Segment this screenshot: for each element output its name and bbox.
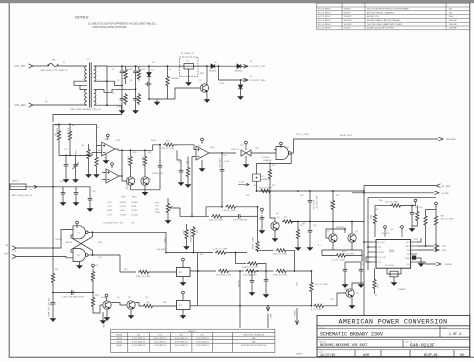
wire IC3 power stub [182,297,184,301]
wire C39 top [251,271,253,278]
bottom connector arrow down [266,306,270,328]
ground under C42 [307,245,312,250]
junction charge node [239,270,241,272]
wire C13 upper [159,145,161,163]
ground under Q5 [104,315,109,320]
svg-text:DEL 2ND LINE CLAMP/CMP COVER: DEL 2ND LINE CLAMP/CMP COVER [367,23,402,26]
svg-text:4.75K 1/8W 1%: 4.75K 1/8W 1% [132,342,145,344]
svg-text:VDD: VDD [414,239,419,241]
svg-text:COMSIG: COMSIG [444,264,453,266]
transistor Q2 [126,177,134,185]
svg-text:BCUP-96: BCUP-96 [424,353,437,357]
svg-text:47K_5%_1/8W: 47K_5%_1/8W [296,134,309,136]
svg-text:100K_5%_1/8W: 100K_5%_1/8W [209,220,223,222]
junction U2B out at drop [121,175,123,177]
svg-text:R3,R4,R11,R13,R20,R26,C40: R3,R4,R11,R13,R20,R26,C40 [241,345,266,347]
wire charge node down [239,271,241,328]
svg-text:IC4B: IC4B [210,147,215,149]
wire R11 bottom [69,142,71,156]
svg-text:0.1UF: 0.1UF [117,106,123,108]
svg-text:R54: R54 [163,302,166,304]
junction drive at arrow [267,305,269,307]
wire G1 power stub [76,227,78,228]
svg-text:Q6: Q6 [145,297,148,299]
svg-text:IC2: IC2 [77,255,80,257]
capacitor C42 [308,228,313,235]
svg-text:470K_5%_1/8W: 470K_5%_1/8W [273,275,287,277]
svg-text:BREAK_AV: BREAK_AV [262,178,272,181]
wire C40 top [265,271,267,277]
wire Q9 collector up [352,283,364,289]
svg-text:J4: J4 [250,61,252,63]
junction R16 mid rail [88,155,90,157]
wire IC6 comsig [417,262,436,264]
svg-text:SCHEMATIC BKBABY 230V: SCHEMATIC BKBABY 230V [320,332,383,338]
wire emitter bus left down [322,250,335,256]
ground under crystal [391,280,396,285]
junction pinB bus [367,246,369,248]
resistor R74 horizontal [335,254,347,257]
net list labels mid-left [103,196,139,225]
wire column B res join [138,66,140,68]
wire Q6 emitter [130,309,132,313]
svg-text:475K: 475K [116,140,121,142]
wire U1B -in [192,156,196,158]
connector TRIGGER arrow [439,137,444,141]
wire D5 bottom [240,89,242,94]
resistor R25 [186,166,189,178]
svg-text:1N4148: 1N4148 [293,310,295,316]
svg-text:Q4: Q4 [277,217,280,219]
op-amp U1B [196,146,209,160]
resistor R87 [416,210,419,222]
svg-text:R74: R74 [342,251,345,253]
svg-text:UTIL_HOT: UTIL_HOT [15,66,27,68]
capacitor C20 [220,167,225,174]
wire G1 output run [93,231,167,233]
wire loop left vertical [205,207,207,217]
transformer T1 primary series link [74,81,87,85]
junction R66 node [294,270,296,272]
ground under D5 [238,94,243,99]
wire MOV1 to bottom [167,87,169,99]
svg-text:R13: R13 [89,155,92,157]
transistor Q5 [103,301,111,309]
resistor R81 [373,213,376,225]
revision table row text [318,8,457,30]
svg-text:+12V: +12V [107,202,112,204]
svg-text:RELAY_DPDT: RELAY_DPDT [340,134,353,137]
svg-text:PB.0: PB.0 [406,242,410,244]
wire stub above left-table ground [102,312,104,318]
junction IC2 output node [197,270,199,272]
svg-text:640-T0528: 640-T0528 [385,265,394,267]
svg-text:Q3: Q3 [149,179,152,181]
wire C53 top [344,262,346,267]
junction at diode D3 anode [206,65,208,67]
svg-text:BATT 1: BATT 1 [12,180,20,183]
svg-text:25MS: 25MS [131,206,137,208]
junction K2 at bus [256,190,258,192]
wire R85 bottom [374,290,376,294]
nand gate G2 [73,249,88,262]
ground under R17 [94,172,99,177]
svg-text:Q8: Q8 [355,231,358,233]
resistor R65 horizontal [245,269,257,272]
junction secondary tap A [106,80,108,82]
wire bus2 left drop [289,221,291,223]
wire Q5 collector stub [106,300,108,301]
svg-text:C20: C20 [223,155,226,157]
svg-text:0.033UF_63V: 0.033UF_63V [152,173,164,175]
svg-text:R11: R11 [72,125,75,127]
wire loop top right [237,206,258,208]
transformer T1 primary top lead [85,65,87,67]
transistor Q1 [200,84,208,92]
wire R70 to bus [269,180,271,191]
svg-text:0.1UF_50V: 0.1UF_50V [218,158,220,168]
svg-text:VOL_DET: VOL_DET [378,257,387,259]
junction control bus left [58,123,60,125]
svg-text:COM: COM [107,214,112,216]
wire U2A +in [97,145,102,147]
wire diode D3 in [207,65,211,67]
wire U2A -in [92,152,102,154]
svg-text:R25: R25 [186,162,189,164]
wire R51 to node [52,284,54,293]
junction battery bus [52,186,54,188]
comparator IC3 box [177,301,191,310]
wire R26 to C21 [223,215,236,217]
wire drive line long [198,305,312,307]
svg-text:C30: C30 [60,181,63,183]
capacitor C1 [120,96,125,103]
resistor R21 [143,155,146,167]
power above IC2 [182,258,185,264]
wire MOV1 from bus [167,66,169,75]
junction bus MOV1 [167,65,169,67]
wire sense line A [364,185,436,187]
junction pinA bus [363,241,365,243]
component K2 small box [253,174,261,181]
junction mid node B [135,88,137,90]
power above R52 [92,264,95,270]
svg-text:TABLE 1: TABLE 1 [188,330,195,333]
wire R73 gnd [297,240,299,245]
op-amp U2A [102,142,115,156]
wire node down to R31 [235,253,237,264]
svg-text:1M: 1M [54,133,56,136]
svg-text:MODEL: MODEL [116,334,123,336]
ground under G2 [77,263,82,268]
svg-text:AC_SMP: AC_SMP [442,185,451,188]
wire U2A +in source [70,124,97,145]
transistor Q8 [348,234,356,242]
svg-text:MOVED CABLE LAYOUT, PWB ALL: MOVED CABLE LAYOUT, PWB ALL [367,19,401,22]
wire relay K1 coil to ground [188,69,190,80]
wire C11 to ground [75,169,77,177]
svg-text:1 OF 3: 1 OF 3 [449,333,461,337]
capacitor C22 [260,215,265,222]
junction charger bus a [297,190,299,192]
capacitor C4 snubber [145,82,152,87]
title block text [319,319,464,357]
svg-text:49.9K: 49.9K [151,140,157,142]
svg-text:C5: C5 [112,93,114,95]
svg-text:R14: R14 [166,141,169,143]
wire TR1 ground stub [245,156,247,162]
svg-text:AMERICAN POWER CONVERSION: AMERICAN POWER CONVERSION [339,319,448,326]
svg-text:ECO 4 REV 3: ECO 4 REV 3 [318,20,332,22]
IC6 left pin labels [378,241,387,264]
svg-text:R11: R11 [137,334,140,336]
svg-text:C31: C31 [73,181,76,183]
diode D5 [238,85,242,89]
svg-text:R70: R70 [272,185,275,187]
IC6 right pin labels [405,242,411,266]
resistor R72 [331,199,334,211]
wire R65 to R66 [257,270,274,272]
junction charger bus b [309,190,311,192]
svg-text:LOW_BATT: LOW_BATT [156,248,167,251]
triac TR1 [241,150,251,156]
wire R20 top [130,150,132,155]
svg-text:0.1UF: 0.1UF [219,83,225,85]
resistor R31 horizontal [247,262,259,265]
diode D1 [120,69,125,76]
svg-text:100K_5%: 100K_5% [56,128,58,137]
wire Q5 to Q6 [111,303,127,306]
capacitor C3 [133,96,138,103]
svg-text:R52: R52 [95,265,98,267]
potentiometer VR1 [166,202,173,214]
wire nested corner [368,197,436,199]
wire R21 to Q3 [144,167,146,177]
trimmer capacitor C11 [73,162,79,169]
svg-text:7/10/96: 7/10/96 [344,28,352,30]
wire T1 secondary bottom lead [94,104,122,106]
wire loop bottom line [192,215,209,217]
wire R68 bottom [310,293,312,306]
wire C31 gnd [75,197,77,200]
svg-text:100MS: 100MS [120,202,127,204]
diode D4 [237,64,241,68]
wire R16 top [88,144,90,148]
svg-text:4.75K 1/8W 1%: 4.75K 1/8W 1% [196,342,209,344]
svg-text:0.1: 0.1 [318,245,321,247]
connector arrow sense B [435,191,440,195]
svg-text:K1_RELAY_GY: K1_RELAY_GY [181,52,195,55]
svg-text:640-0213F: 640-0213F [410,342,435,348]
svg-text:10/24/95: 10/24/95 [344,24,353,26]
wire right vertical to R63 [257,207,259,240]
junction node left [52,292,54,294]
wire left leg IC6 [374,206,376,214]
resistor R14 horizontal [163,143,175,146]
svg-text:D11: D11 [104,297,107,299]
ground snubber [154,100,159,105]
svg-text:B_SMP: B_SMP [442,193,449,195]
wire charge resistor branch top [269,162,271,168]
resistor R1 [124,69,127,81]
svg-text:VR_ADJ: VR_ADJ [237,280,240,287]
wire C30 gnd [62,197,64,200]
resistor R82 [424,215,427,227]
latch cross-coupling wires [88,231,92,233]
wire T1 secondary vertical bus [106,66,108,105]
junction charger bus right [363,190,365,192]
wire emitter bus [322,249,362,251]
svg-text:LOW-BATT-TEST: LOW-BATT-TEST [103,221,120,224]
connector OUTPUT_NEU arrow [244,78,249,82]
svg-text:ECO 4 REV 5: ECO 4 REV 5 [318,28,332,30]
wire transistor Q1 branch [206,66,208,82]
wire C13 lower [159,170,161,190]
transformer T1 primary bottom lead [85,104,87,106]
junction out line b [130,149,132,151]
wire R82 top [425,209,427,214]
wire R25 top [187,157,189,167]
svg-text:R17: R17 [98,150,101,152]
svg-text:R20: R20 [133,152,136,154]
svg-text:CHARGE: CHARGE [263,159,272,162]
svg-text:ECO 4 REV 0: ECO 4 REV 0 [318,9,332,11]
svg-text:7.5K 1/8W 1%: 7.5K 1/8W 1% [154,342,166,344]
wire R29 top [186,224,188,228]
svg-text:2008_OK_A/DK: 2008_OK_A/DK [259,187,273,190]
svg-text:0.1UF_CER_RAD_MONO: 0.1UF_CER_RAD_MONO [62,296,85,299]
svg-text:0.22UF: 0.22UF [74,150,76,157]
wire Q7 collector [332,222,334,234]
svg-text:+24V: +24V [107,206,112,208]
wire R80 line [375,205,390,207]
wire loop top line [206,206,223,208]
wire snubber bottom bus [149,98,175,100]
wire R62 out [227,252,247,254]
ground IC6 beep [418,261,423,266]
svg-text:0.1UF_50V_CER: 0.1UF_50V_CER [340,254,355,256]
svg-text:+BATT_CHGR: +BATT_CHGR [251,237,254,250]
wire R72 to bus2 [332,211,334,222]
svg-text:VREF: VREF [107,210,113,212]
svg-text:IC1B: IC1B [98,242,103,244]
junction drive at charge leg [239,305,241,307]
wire C23 top [180,160,182,168]
wire IC6 beep to gnd [417,258,421,261]
power above U2B [111,163,114,169]
ground under Q9 [349,303,354,308]
junction R62 node [235,252,237,254]
comparator IC2 box [177,268,191,277]
wire IC6 pin242 to node [417,238,421,242]
svg-text:100MS: 100MS [131,202,138,204]
resistor R68 [310,281,313,293]
wire vertical right bus B [367,198,369,270]
wire R87 bottom [412,222,417,226]
wire G2 output run [93,254,121,256]
svg-text:TXD: TXD [442,246,447,248]
wire R87 top [416,206,418,211]
transformer T1 primary winding lower [85,90,87,106]
svg-text:0.1UF_CER_SM: 0.1UF_CER_SM [233,220,248,222]
ground under Q4 [272,236,277,241]
junction snubber [148,98,150,100]
transistor Q4 [271,222,279,230]
wire Q1 collector [206,82,208,85]
wire jog to R14 [153,145,161,151]
wire R30 bottom [193,238,195,253]
svg-text:C41: C41 [300,195,303,197]
wire R29 gnd stub [186,240,188,244]
svg-text:D1: D1 [112,69,114,71]
junction C39 top [251,270,253,272]
wire R72 top [332,191,334,199]
svg-text:SHEET: SHEET [442,327,448,329]
junction mid rail a [65,155,67,157]
svg-text:475K_1%: 475K_1% [141,156,143,164]
svg-text:TITLE: TITLE [319,327,324,329]
wire relay K1 out [194,65,208,67]
svg-text:R27: R27 [201,334,204,336]
wire Q2 emitter [130,185,132,190]
ground under C10 [63,177,68,182]
svg-text:600MI: 600MI [117,345,123,347]
svg-text:D2: D2 [151,70,153,72]
svg-text:R14: R14 [173,145,176,147]
wire C42 top [309,222,311,229]
ground under IC3 [180,313,185,318]
resistor R2 [124,93,127,105]
wire R10 top stub [58,124,60,129]
wire T1 secondary tap lower-top [94,89,104,91]
ground under R73 [295,245,300,250]
wire K2 to bus [256,181,258,191]
wire R54 to IC3 [154,305,177,307]
wire to R31 [236,263,247,265]
junction mid rail b [69,155,71,157]
wire R21 top [144,150,146,155]
junction bus2 c [351,221,353,223]
svg-text:1K_5%_1/8W: 1K_5%_1/8W [310,309,322,311]
svg-text:0.1UF: 0.1UF [140,69,146,71]
diode D2 [147,73,151,77]
resistor R10 [57,130,60,142]
wire VR1 top [167,198,169,202]
junction sense B at bus [363,192,365,194]
wire R50 to IC2 [150,271,177,273]
svg-text:R54: R54 [146,302,149,304]
resistor R67 horizontal [276,249,288,252]
revision history table [317,3,470,30]
wire bus y252 to R62 [166,252,213,254]
junction bus2 a [309,221,311,223]
ground under rectifier column B [133,108,138,113]
wire column B join top [135,66,137,68]
rotated value labels [49,128,363,305]
circuit breaker CB1 [48,63,58,66]
microcontroller IC6 box [376,240,411,269]
svg-text:C10: C10 [64,149,67,151]
svg-text:R76: R76 [330,299,333,301]
wire IC6 pin4 stub [366,257,371,262]
svg-text:49.9K 1/8W 1%: 49.9K 1/8W 1% [175,345,188,347]
wire Q9 emitter down [351,297,353,303]
junction U1B out feedback [221,152,223,154]
resistor R76 horizontal [313,304,325,307]
wire C23 feed [177,151,181,161]
svg-text:IC6_MCU: IC6_MCU [381,233,390,235]
junction T1 sec bottom at bus [106,104,108,106]
